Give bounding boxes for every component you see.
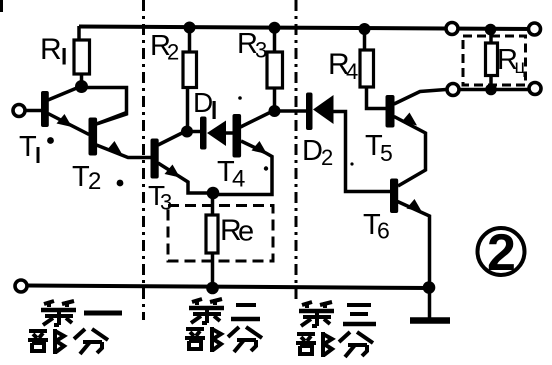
svg-text:2: 2 xyxy=(88,168,101,195)
svg-text:D: D xyxy=(302,135,323,167)
svg-text:T: T xyxy=(19,131,37,163)
svg-text:5: 5 xyxy=(380,140,393,166)
svg-text:D: D xyxy=(193,87,213,118)
svg-text:2: 2 xyxy=(167,40,179,65)
svg-text:R: R xyxy=(40,33,62,66)
svg-text:4: 4 xyxy=(346,59,358,84)
svg-text:6: 6 xyxy=(377,218,390,244)
svg-text:3: 3 xyxy=(160,190,172,215)
svg-text:4: 4 xyxy=(232,166,245,193)
svg-text:2: 2 xyxy=(321,145,333,170)
svg-text:ц: ц xyxy=(515,57,526,78)
svg-text:e: e xyxy=(238,216,254,248)
svg-text:3: 3 xyxy=(255,38,267,63)
svg-text:2: 2 xyxy=(487,224,516,282)
